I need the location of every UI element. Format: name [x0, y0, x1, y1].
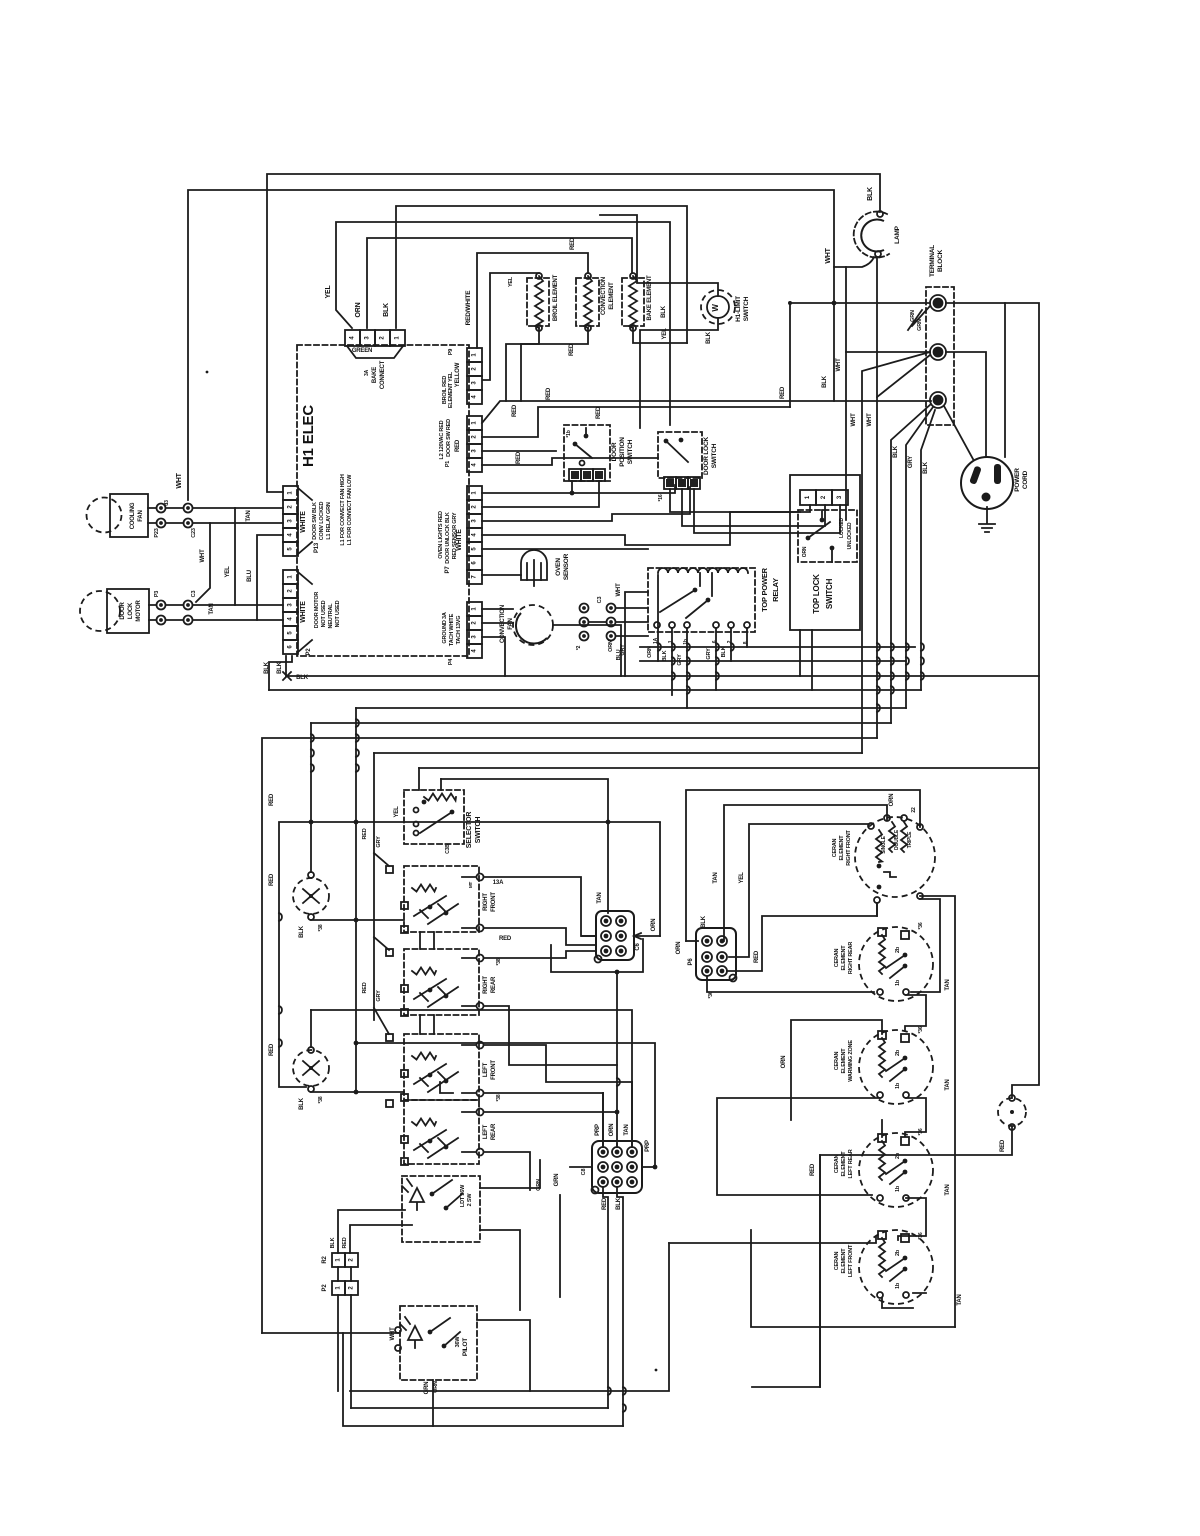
- svg-text:RED: RED: [362, 982, 368, 993]
- svg-text:LOCK: LOCK: [128, 602, 134, 619]
- wire x603 vertical: [602, 1093, 604, 1147]
- wire mid bus y779: [441, 779, 608, 913]
- label C2B: [445, 844, 451, 854]
- svg-text:SWITCH: SWITCH: [475, 817, 482, 844]
- label BLU: [247, 570, 253, 582]
- svg-text:SWITCH: SWITCH: [711, 443, 718, 468]
- svg-text:P4: P4: [448, 658, 454, 665]
- label GRN: [910, 310, 923, 331]
- blob red text: [439, 419, 452, 460]
- wire b2 right1: [484, 951, 596, 958]
- svg-text:RIGHT: RIGHT: [483, 976, 489, 994]
- svg-text:RED: RED: [342, 1237, 348, 1248]
- svg-text:WHT: WHT: [176, 472, 183, 488]
- wire C23 to P13 pin3 (TAN): [193, 522, 283, 524]
- ceran LR top sq: [878, 1134, 909, 1145]
- wire bottom right corner: [752, 1127, 1012, 1387]
- svg-text:3: 3: [472, 635, 478, 639]
- label RED P1: [455, 439, 461, 452]
- label WHT pilot: [390, 1327, 396, 1341]
- svg-text:3: 3: [288, 603, 294, 607]
- ceran LF bottom terminals: [877, 1292, 909, 1298]
- switch B3 dashed box: [404, 1034, 479, 1100]
- svg-text:C6: C6: [635, 943, 641, 951]
- label H1-LIMIT SWITCH: [735, 296, 750, 322]
- wire grn drop: [559, 1195, 561, 1297]
- wire ceran orn pin stub: [686, 940, 698, 942]
- svg-text:ORN: ORN: [781, 1056, 787, 1069]
- wire H1-limit top: [600, 215, 718, 296]
- label P7: [445, 566, 451, 574]
- label TAN r2: [945, 1079, 951, 1090]
- label YEL on L4: [325, 285, 332, 299]
- svg-text:1: 1: [336, 1258, 342, 1262]
- wire x356 rail: [355, 708, 357, 1092]
- wire sel feed a: [418, 768, 420, 790]
- label RED su1: [269, 873, 275, 886]
- ceran RF triple res: [901, 822, 907, 852]
- wire tan right rail: [920, 896, 955, 1327]
- switch B4 contacts: [414, 1130, 458, 1158]
- svg-text:RED: RED: [546, 387, 552, 400]
- wire grn-gry rail: [374, 753, 389, 1034]
- label C23: [191, 528, 197, 538]
- svg-text:WARMING ZONE: WARMING ZONE: [848, 1040, 854, 1082]
- wire bake bottom: [633, 328, 687, 343]
- svg-text:CONNECT: CONNECT: [380, 360, 386, 389]
- blob P7 text: [438, 511, 458, 564]
- blob inner note 1: [340, 474, 346, 545]
- svg-text:GRY: GRY: [706, 648, 712, 660]
- connector GREEN 4-pin: [345, 330, 405, 346]
- svg-text:PILOT: PILOT: [462, 1338, 469, 1356]
- label *36 lr: [918, 1128, 924, 1135]
- label TAN ceran: [713, 872, 719, 883]
- wire p8 left pin: [570, 1166, 592, 1168]
- svg-text:H1-LIMIT: H1-LIMIT: [735, 296, 742, 322]
- switch B4 coil: [412, 1119, 436, 1126]
- label TRIPLE: [907, 831, 913, 848]
- wire C24 to P2 pin3 (TAN): [193, 604, 283, 606]
- wire x617 vertical: [616, 972, 618, 1147]
- label SELECTOR SWITCH: [466, 812, 482, 849]
- svg-text:*38: *38: [496, 958, 502, 965]
- wire p6b red: [727, 903, 877, 971]
- label RED br: [810, 1163, 816, 1176]
- lamp body: [861, 220, 884, 252]
- wire wz bottom left: [717, 1098, 880, 1195]
- svg-text:DOOR LOCK: DOOR LOCK: [703, 437, 710, 475]
- svg-text:L1 FOR CONVECT FAN HIGH: L1 FOR CONVECT FAN HIGH: [340, 474, 346, 545]
- label BLU: [616, 649, 622, 660]
- s1 contacts: [430, 1180, 462, 1210]
- power cord slot R: [994, 464, 1001, 484]
- wire p7 pin3 right: [482, 487, 690, 521]
- svg-text:CONVECTION: CONVECTION: [601, 277, 607, 315]
- label RED rail1: [362, 828, 368, 839]
- svg-text:ORN: ORN: [609, 1124, 615, 1137]
- svg-text:SWITCH: SWITCH: [627, 439, 634, 464]
- label BLK t3a: [893, 445, 899, 458]
- wire P1 pin2 bus y407: [482, 407, 790, 437]
- connector P6b shell: [696, 928, 736, 980]
- svg-text:1: 1: [472, 491, 478, 495]
- wire p2 down a: [337, 1295, 339, 1391]
- svg-text:BLK: BLK: [867, 187, 874, 201]
- wire WHT pilot: [262, 1332, 400, 1334]
- label RED p1: [516, 451, 522, 464]
- wire wz chain right: [905, 1098, 926, 1136]
- svg-text:P1: P1: [445, 461, 451, 467]
- label relay pins: [653, 637, 749, 644]
- switch B4 dashed box: [404, 1100, 479, 1164]
- convection fan circle: [513, 605, 553, 645]
- label *16: [658, 494, 664, 501]
- wire b2 right2: [484, 1006, 617, 1065]
- svg-text:P3: P3: [154, 591, 160, 597]
- svg-text:C3: C3: [191, 591, 197, 598]
- wire T3 diag 3: [921, 410, 935, 690]
- wire p8 pin3 up: [631, 1082, 633, 1147]
- svg-text:CORD: CORD: [1022, 470, 1029, 489]
- label 1b ceran WZ: [895, 1082, 901, 1089]
- P13 fan lines: [298, 488, 312, 554]
- label BLK r2: [330, 1237, 336, 1248]
- label DOUBLE: [894, 829, 900, 850]
- svg-text:ELEMENT: ELEMENT: [841, 1248, 847, 1274]
- label ORN p8: [609, 1124, 615, 1137]
- connector tls pins: [800, 490, 848, 505]
- svg-text:C3B: C3B: [445, 844, 451, 854]
- ceran LR circle: [859, 1133, 933, 1207]
- wire H1-limit bottom: [640, 318, 718, 428]
- pilot triangle lamp: [400, 1317, 422, 1348]
- pilot terminals: [395, 1327, 401, 1351]
- svg-text:RED: RED: [362, 828, 368, 839]
- oven light switch dashed box: [402, 1176, 480, 1242]
- svg-text:CERAN: CERAN: [834, 1051, 840, 1070]
- wire p2 down b: [350, 1295, 352, 1408]
- label switch B4: [483, 1123, 497, 1140]
- label BLK su1: [299, 925, 305, 938]
- switch B1 entry square: [386, 866, 408, 933]
- svg-text:RED: RED: [269, 873, 275, 886]
- relay coil: [658, 568, 748, 573]
- label BLK mid3: [296, 675, 309, 681]
- wire c6 right mid: [634, 933, 660, 939]
- wire bus y1043: [354, 1041, 655, 1167]
- label GRY: [620, 644, 626, 656]
- wire su1 bottom: [311, 918, 404, 923]
- power cord pin: [982, 493, 991, 502]
- svg-text:ELEMENT YEL: ELEMENT YEL: [448, 371, 454, 408]
- svg-text:ORN: ORN: [802, 546, 808, 557]
- ceran RF limiter: [877, 864, 896, 890]
- label 13A: [493, 880, 504, 886]
- svg-text:ELEMENT: ELEMENT: [609, 282, 615, 310]
- connector P7 strip: [467, 486, 482, 584]
- svg-text:BLK: BLK: [299, 925, 305, 938]
- svg-text:ELEMENT: ELEMENT: [841, 1048, 847, 1074]
- label switch B3: [483, 1060, 497, 1080]
- svg-text:WHT: WHT: [867, 413, 873, 427]
- wire lf bottom rail: [751, 1230, 955, 1327]
- wire L2 second bus (WHT to lamp): [188, 190, 874, 500]
- wire GRN stubs: [908, 306, 930, 330]
- svg-text:P23: P23: [154, 528, 160, 537]
- svg-text:BLK: BLK: [822, 375, 828, 388]
- svg-text:RED: RED: [512, 404, 518, 417]
- label RED p8b: [602, 1197, 608, 1210]
- power cord circle: [961, 457, 1013, 509]
- switch B3 coil: [412, 1053, 436, 1060]
- wire pilot right: [477, 1320, 530, 1391]
- svg-text:BLK: BLK: [299, 1097, 305, 1110]
- wire conv bottom: [521, 328, 588, 401]
- blob inner note 2: [347, 474, 353, 545]
- svg-text:MT: MT: [468, 882, 473, 889]
- svg-text:R2: R2: [322, 1256, 328, 1264]
- svg-text:CERAN: CERAN: [834, 1154, 840, 1173]
- svg-text:C8: C8: [581, 1169, 587, 1176]
- wire s1 right b: [480, 1230, 520, 1310]
- pilot contacts: [428, 1318, 460, 1348]
- svg-text:*36: *36: [918, 922, 924, 929]
- wire lamp bottom down: [876, 257, 878, 397]
- svg-text:3: 3: [472, 449, 478, 453]
- label DOOR POSITION SWITCH: [611, 437, 634, 467]
- power cord slot L: [969, 466, 982, 485]
- broil element resistor: [535, 276, 543, 328]
- ceran LF resistor: [879, 1238, 885, 1277]
- svg-text:UNLOCKED: UNLOCKED: [847, 522, 853, 549]
- ground symbol: [979, 507, 995, 532]
- wire c3c4 link: [589, 621, 606, 623]
- svg-text:OVEN: OVEN: [555, 558, 562, 576]
- wire fan box to pins: [148, 508, 183, 523]
- svg-text:FRONT: FRONT: [491, 892, 497, 912]
- svg-text:3: 3: [288, 519, 294, 523]
- selector coil: [424, 794, 456, 801]
- P2 fan lines: [298, 572, 312, 652]
- label *38 su1: [318, 924, 324, 931]
- svg-text:4: 4: [288, 533, 294, 537]
- svg-text:*36: *36: [918, 1128, 924, 1135]
- svg-text:1b: 1b: [895, 1185, 901, 1192]
- label TOP POWER RELAY: [760, 567, 780, 612]
- H1-limit body: [707, 296, 729, 318]
- svg-text:*16: *16: [658, 494, 664, 501]
- svg-text:2: 2: [288, 505, 294, 509]
- svg-text:L2 120VAC RED: L2 120VAC RED: [439, 420, 445, 459]
- wire T1 right to power cord: [946, 303, 1005, 457]
- svg-text:4: 4: [472, 395, 478, 399]
- svg-text:NOT USED: NOT USED: [321, 600, 327, 627]
- svg-text:BLOCK: BLOCK: [937, 249, 944, 272]
- switch B1 coil: [412, 885, 436, 892]
- svg-text:RIGHT FRONT: RIGHT FRONT: [846, 829, 852, 865]
- label YELLOW: [455, 362, 461, 387]
- svg-text:DOUBLE: DOUBLE: [894, 829, 900, 850]
- svg-text:BLK: BLK: [706, 331, 712, 344]
- label RED right: [780, 386, 786, 399]
- svg-text:DOOR: DOOR: [120, 602, 126, 620]
- svg-text:PRP: PRP: [645, 1140, 651, 1152]
- svg-text:5: 5: [288, 631, 294, 635]
- label RED bus2: [596, 406, 602, 419]
- label P2b: [322, 1284, 328, 1292]
- label C3: [597, 597, 603, 604]
- svg-text:L1 RELAY GRN: L1 RELAY GRN: [326, 502, 332, 540]
- connector P2b: [332, 1281, 358, 1295]
- small switch circle right: [998, 1098, 1026, 1126]
- svg-text:BLK: BLK: [721, 646, 727, 657]
- terminal T1: [930, 295, 946, 311]
- svg-text:*38: *38: [318, 924, 324, 931]
- label 2b ceran LF: [895, 1249, 901, 1256]
- wire y1082 left end: [440, 1082, 453, 1093]
- wire L1 top bus (BLK to lamp): [267, 174, 880, 492]
- ceran WZ top sq: [878, 1031, 909, 1042]
- small switch terminals: [1009, 1095, 1015, 1130]
- wire s1 right a: [480, 1160, 540, 1188]
- wire bottom bus2: [351, 1407, 608, 1409]
- label *38 b3: [496, 1094, 502, 1101]
- label RED r2: [342, 1237, 348, 1248]
- svg-text:ORN: ORN: [676, 942, 682, 955]
- wire YEL vertical: [234, 508, 236, 605]
- svg-text:RIGHT REAR: RIGHT REAR: [848, 942, 854, 974]
- label GREEN: [352, 348, 372, 354]
- ceran WZ bottom terminals: [877, 1092, 909, 1098]
- label GRN pilot: [424, 1382, 430, 1395]
- label BROIL ELEMENT: [553, 274, 559, 321]
- label *2: [576, 645, 582, 650]
- wire su1 top up: [310, 723, 312, 872]
- wire p7 pin4 right: [482, 512, 800, 545]
- switch B2 coil: [412, 968, 436, 975]
- label YEL: [225, 566, 231, 578]
- svg-text:8: 8: [743, 641, 749, 644]
- svg-text:RED: RED: [810, 1163, 816, 1176]
- wire mid bus y647: [640, 646, 915, 648]
- switch B3 contacts: [414, 1064, 458, 1092]
- connector dls pins: [664, 477, 700, 489]
- svg-text:1b: 1b: [895, 1282, 901, 1289]
- H1-limit dashed circle: [701, 290, 735, 324]
- label C8: [581, 1169, 587, 1176]
- wire b1 right2: [484, 928, 596, 945]
- svg-text:d3: d3: [164, 500, 170, 506]
- svg-text:*1b: *1b: [566, 430, 572, 437]
- label TAN c6: [597, 892, 603, 903]
- wire WHT into T2: [846, 351, 930, 353]
- svg-text:DOOR: DOOR: [611, 442, 618, 461]
- wire relay t5 down: [730, 628, 732, 661]
- svg-text:GRN: GRN: [917, 319, 923, 331]
- terminal T2: [930, 344, 946, 360]
- connector C6 shell: [596, 911, 634, 960]
- selector contacts: [414, 800, 455, 836]
- ceran WZ contacts: [886, 1056, 907, 1081]
- svg-text:BAKE ELEMENT: BAKE ELEMENT: [647, 275, 653, 320]
- label SINGLE: [881, 835, 887, 853]
- svg-text:WHT: WHT: [616, 583, 622, 597]
- wire BLU vertical: [257, 535, 283, 620]
- svg-text:6: 6: [472, 561, 478, 565]
- dps contacts: [573, 428, 592, 466]
- svg-text:C23: C23: [191, 528, 197, 538]
- svg-text:*36: *36: [918, 1232, 924, 1239]
- label GRY rail2: [376, 990, 382, 1002]
- ceran RF single res: [876, 830, 882, 862]
- label ceran RR: [834, 942, 854, 974]
- svg-text:TAN: TAN: [945, 1079, 951, 1090]
- svg-text:CERAN: CERAN: [834, 948, 840, 967]
- label CONVECTION ELEMENT: [601, 277, 615, 315]
- label ceran WZ: [834, 1040, 854, 1082]
- wire bottom bus1: [350, 1243, 669, 1391]
- label BLK r2: [662, 650, 668, 661]
- svg-text:2: 2: [472, 505, 478, 509]
- svg-text:LEFT: LEFT: [483, 1062, 489, 1077]
- wire c3 wires right: [616, 608, 648, 636]
- ceran WZ circle: [859, 1030, 933, 1104]
- svg-text:2: 2: [472, 621, 478, 625]
- conv terminals: [585, 273, 591, 331]
- wire mid bus y768: [419, 767, 1039, 769]
- speck: [655, 1369, 658, 1372]
- label H1 ELEC: [300, 405, 317, 467]
- wire bus y1010: [311, 1010, 632, 1082]
- svg-text:13A: 13A: [493, 880, 504, 886]
- svg-text:RED: RED: [516, 451, 522, 464]
- svg-text:REAR: REAR: [491, 976, 497, 993]
- svg-text:1: 1: [395, 336, 401, 340]
- speck: [206, 371, 209, 374]
- switch B2 entry square: [386, 949, 408, 1016]
- ceran LF contacts: [886, 1256, 907, 1281]
- label ORN r1: [647, 646, 653, 658]
- wire p8 pin2 up: [616, 1144, 618, 1147]
- blob pilot text: [455, 1336, 461, 1348]
- su1 terminals: [308, 872, 314, 920]
- svg-text:1: 1: [472, 421, 478, 425]
- svg-text:BAKE: BAKE: [372, 367, 378, 383]
- svg-text:2: 2: [821, 495, 827, 499]
- surface unit 1 circle: [293, 878, 329, 914]
- label RED su2: [269, 1043, 275, 1056]
- label WHT relay: [616, 583, 622, 597]
- svg-text:ORN: ORN: [651, 919, 657, 932]
- ceran LR bottom terminals: [877, 1195, 909, 1201]
- connector dps pins: [569, 469, 605, 481]
- ceran LR contacts: [886, 1159, 907, 1184]
- svg-text:WHT: WHT: [836, 358, 842, 372]
- svg-text:*38: *38: [496, 1094, 502, 1101]
- svg-text:4: 4: [472, 463, 478, 467]
- svg-text:DOOR SW RED: DOOR SW RED: [446, 419, 452, 457]
- wire relay t6 down: [746, 628, 748, 647]
- svg-text:WHT: WHT: [851, 413, 857, 427]
- svg-text:BLK: BLK: [923, 461, 929, 474]
- label RED elem: [570, 237, 576, 250]
- svg-text:LEFT REAR: LEFT REAR: [848, 1149, 854, 1178]
- label LAMP: [894, 225, 901, 243]
- svg-text:WHITE: WHITE: [300, 601, 307, 623]
- wire broil top feed: [483, 273, 539, 380]
- svg-text:MOTOR: MOTOR: [136, 600, 142, 622]
